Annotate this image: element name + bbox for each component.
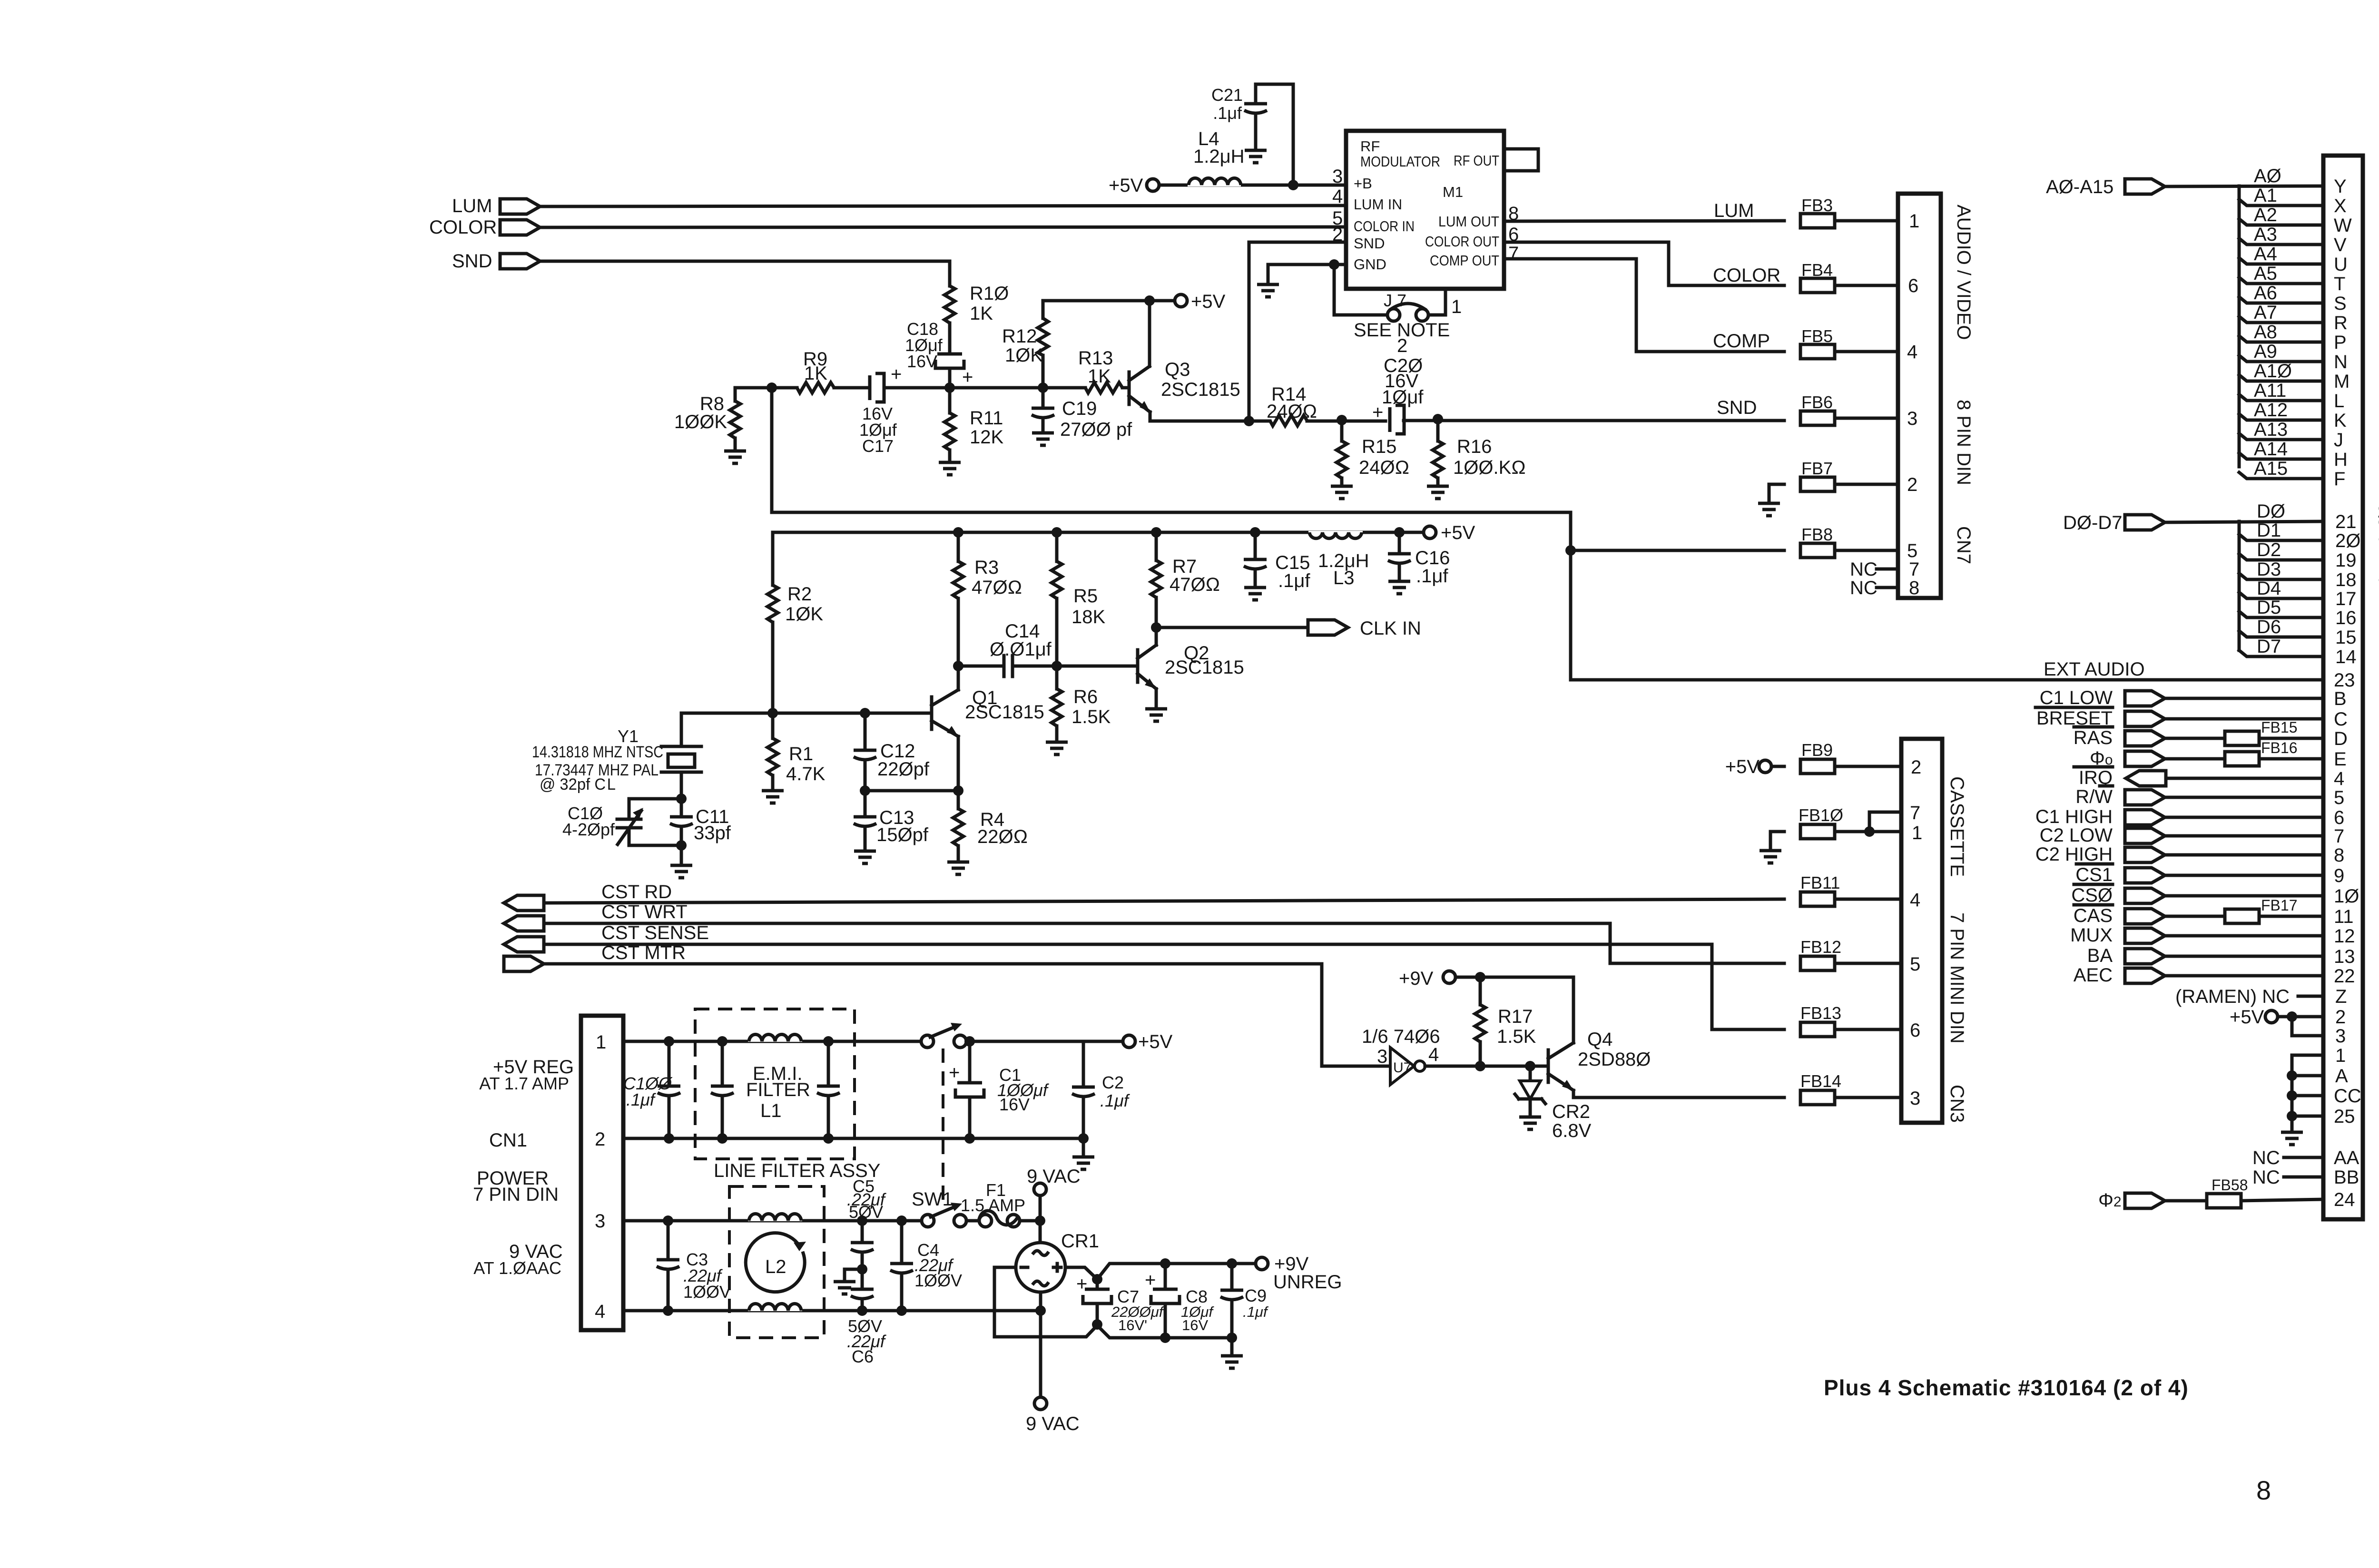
svg-text:CST RD: CST RD	[601, 882, 672, 902]
ferrite bead FB13	[1800, 1003, 1841, 1037]
ground below C13	[854, 851, 876, 863]
node CST RD flag	[504, 882, 672, 911]
svg-text:3: 3	[1377, 1046, 1387, 1067]
svg-text:Z: Z	[2335, 986, 2347, 1007]
wire D7 line	[2239, 650, 2323, 657]
svg-text:6: 6	[1910, 1020, 1920, 1041]
svg-text:7: 7	[1909, 559, 1919, 580]
ferrite bead FB7	[1800, 459, 1835, 491]
transistor Q4	[1548, 1029, 1651, 1090]
junction pin 25 gnd	[2287, 1111, 2297, 1121]
svg-text:R: R	[2334, 313, 2348, 333]
diode CR2 zener	[1515, 1066, 1592, 1141]
svg-text:CN7: CN7	[1953, 526, 1974, 564]
svg-text:+: +	[1076, 1274, 1087, 1294]
svg-text:C21: C21	[1211, 85, 1243, 105]
wire FB10 to CN3 pins 1 and 7	[1835, 812, 1901, 832]
svg-text:25: 25	[2334, 1106, 2355, 1127]
wire ground pins 1 A CC 25	[2292, 1055, 2323, 1132]
svg-text:R1Ø: R1Ø	[970, 283, 1009, 304]
svg-text:AEC: AEC	[2074, 965, 2113, 986]
svg-text:M: M	[2334, 371, 2350, 392]
svg-text:1: 1	[1451, 296, 1462, 317]
resistor R7	[1151, 527, 1220, 645]
svg-text:COMP: COMP	[1713, 331, 1770, 352]
svg-text:5Ø PIN FEMALE: 5Ø PIN FEMALE	[2375, 503, 2379, 659]
ground below C19	[1032, 433, 1054, 445]
svg-text:4-2Øpf: 4-2Øpf	[562, 820, 615, 839]
wire FB5 to CN7 pin 4	[1835, 350, 1898, 353]
svg-text:MODULATOR: MODULATOR	[1360, 153, 1440, 170]
svg-text:FB8: FB8	[1801, 525, 1833, 544]
resistor R5	[1052, 527, 1105, 666]
capacitor C6	[847, 1269, 887, 1366]
svg-text:E: E	[2334, 749, 2347, 770]
svg-text:23: 23	[2334, 670, 2355, 691]
svg-text:7 PIN MINI DIN: 7 PIN MINI DIN	[1946, 912, 1967, 1044]
svg-text:AA: AA	[2334, 1147, 2359, 1168]
wire BRESET to pin C	[2166, 717, 2323, 721]
junction base line to feedback	[767, 382, 777, 393]
ground below R15	[1331, 486, 1353, 499]
node PHI2 flag	[2098, 1190, 2165, 1211]
wire C1 HIGH to pin 6	[2166, 816, 2323, 819]
node CAS flag	[2074, 905, 2165, 926]
node (RAMEN) NC	[2175, 986, 2323, 1007]
svg-text:FB4: FB4	[1801, 260, 1833, 280]
svg-text:R17: R17	[1498, 1006, 1533, 1027]
ferrite bead FB15	[2225, 719, 2297, 745]
capacitor C20	[1390, 405, 1404, 434]
svg-text:D3: D3	[2257, 559, 2281, 580]
svg-text:5: 5	[1910, 954, 1920, 975]
svg-text:7: 7	[1508, 243, 1519, 264]
wire CST SENSE to FB13	[544, 944, 1784, 1029]
wire MUX to pin 12	[2166, 934, 2323, 938]
node SND input flag	[452, 251, 540, 272]
node BA flag	[2087, 945, 2165, 966]
CN1 label +5V REG	[479, 1057, 574, 1093]
svg-text:1.2μH: 1.2μH	[1193, 146, 1245, 167]
svg-text:A11: A11	[2254, 380, 2286, 401]
capacitor C9	[1220, 1258, 1269, 1356]
RF OUT stub	[1504, 149, 1538, 171]
svg-text:16V': 16V'	[1118, 1317, 1147, 1333]
wire RAS to pin D	[2166, 737, 2225, 740]
resistor R6	[1052, 666, 1111, 742]
svg-text:CC: CC	[2334, 1086, 2361, 1107]
node AEC flag	[2074, 965, 2165, 986]
svg-text:A5: A5	[2254, 263, 2277, 284]
node C2 LOW flag	[2040, 825, 2165, 846]
ferrite bead FB5	[1800, 326, 1835, 359]
svg-text:EDGE CONNECTOR: EDGE CONNECTOR	[2376, 704, 2379, 912]
svg-text:L2: L2	[765, 1256, 786, 1277]
svg-text:+5V: +5V	[1109, 175, 1143, 196]
svg-text:22ØΩ: 22ØΩ	[977, 826, 1028, 847]
svg-text:C9: C9	[1245, 1286, 1267, 1305]
svg-text:.1μf: .1μf	[1243, 1303, 1269, 1320]
svg-text:NC: NC	[1850, 559, 1878, 580]
wire A14 line	[2239, 453, 2323, 459]
wire A3 line	[2239, 238, 2323, 245]
svg-text:R3: R3	[974, 557, 999, 578]
wire CR1 minus to ground bus	[994, 1267, 1232, 1338]
svg-text:NC: NC	[2252, 1147, 2280, 1168]
svg-text:M1: M1	[1443, 184, 1463, 200]
svg-text:K: K	[2334, 410, 2347, 431]
junction R16 top	[1433, 414, 1443, 424]
svg-text:.1μf: .1μf	[626, 1090, 657, 1109]
svg-text:+5V: +5V	[2230, 1007, 2264, 1028]
transistor Q1	[932, 687, 1044, 736]
svg-text:9 VAC: 9 VAC	[1026, 1413, 1080, 1434]
svg-text:S: S	[2334, 293, 2347, 314]
svg-text:A14: A14	[2254, 439, 2288, 460]
wire Q4 emitter to FB14	[1573, 1090, 1784, 1098]
wire COMP OUT to FB5	[1504, 259, 1784, 352]
svg-text:47ØΩ: 47ØΩ	[972, 577, 1022, 598]
svg-text:3: 3	[2335, 1026, 2346, 1047]
svg-text:1ØØK: 1ØØK	[674, 412, 727, 432]
node C1 HIGH flag	[2035, 806, 2165, 827]
wire Q1 collector up	[957, 666, 960, 690]
svg-text:+5V: +5V	[1191, 291, 1226, 312]
svg-text:.1μf: .1μf	[1100, 1091, 1131, 1110]
svg-text:FB6: FB6	[1801, 392, 1833, 412]
node C2 HIGH flag	[2035, 844, 2165, 865]
jumper J7	[1384, 291, 1428, 321]
resistor R11	[944, 388, 1003, 462]
svg-text:CAS: CAS	[2074, 905, 2113, 926]
wire +5V to pin 3	[2292, 1017, 2323, 1036]
wire C1 LOW to pin B	[2166, 697, 2323, 700]
wire C11 to ground	[680, 845, 683, 865]
node +5V terminal at Q3	[1150, 291, 1226, 312]
svg-text:COLOR: COLOR	[1713, 265, 1780, 286]
wire A0 line	[2165, 186, 2323, 186]
svg-text:A2: A2	[2254, 205, 2277, 225]
wire D2 line	[2239, 554, 2323, 560]
svg-text:1Øμf: 1Øμf	[1382, 387, 1424, 408]
svg-text:A12: A12	[2254, 400, 2288, 421]
svg-text:8: 8	[1909, 578, 1919, 598]
wire D bus spine	[2238, 521, 2241, 650]
svg-text:FB17: FB17	[2261, 897, 2297, 914]
CN1 label 9 VAC	[473, 1241, 562, 1278]
ground below R1	[762, 791, 784, 803]
svg-text:SND: SND	[1717, 397, 1757, 418]
svg-text:A: A	[2335, 1066, 2348, 1087]
svg-text:(RAMEN) NC: (RAMEN) NC	[2175, 986, 2290, 1007]
junction fuse / 9VAC	[1035, 1215, 1045, 1226]
capacitor C4	[890, 1215, 962, 1316]
svg-text:22: 22	[2334, 966, 2355, 987]
ground below Q2	[1145, 709, 1167, 721]
capacitor C1	[949, 1036, 1050, 1144]
node +5V terminal oscillator rail	[1424, 522, 1475, 543]
wire FB3 to CN7 pin 1	[1835, 219, 1898, 223]
capacitor C3	[657, 1215, 731, 1316]
node +9V terminal at R17	[1399, 968, 1480, 989]
ground at modulator	[1257, 284, 1279, 297]
resistor R2	[767, 584, 823, 713]
ground below C16	[1388, 581, 1410, 594]
svg-text:DØ-D7: DØ-D7	[2063, 512, 2122, 533]
wire CN1 pin 1 line	[623, 1040, 1123, 1043]
svg-text:14.31818 MHZ NTSC: 14.31818 MHZ NTSC	[532, 743, 663, 761]
wire CR1 plus to +9V rail	[1065, 1264, 1256, 1279]
svg-text:2: 2	[2335, 1007, 2346, 1028]
wire Q4 collector stub	[1572, 1032, 1575, 1043]
svg-text:RF OUT: RF OUT	[1454, 152, 1499, 169]
svg-text:27ØØ pf: 27ØØ pf	[1060, 419, 1132, 440]
svg-text:D2: D2	[2257, 539, 2281, 560]
junction C10/C11 top	[676, 794, 687, 804]
wire COLOR OUT to FB4	[1504, 242, 1784, 285]
svg-text:BB: BB	[2334, 1167, 2359, 1188]
rectifier CR1 bridge	[1016, 1231, 1099, 1292]
svg-text:J: J	[2334, 430, 2343, 451]
wire FB13 to CN3 pin 6	[1835, 1028, 1901, 1031]
ferrite bead FB11	[1800, 873, 1840, 906]
svg-text:3: 3	[1910, 1088, 1920, 1109]
capacitor C2	[1072, 1041, 1131, 1157]
svg-text:RAS: RAS	[2074, 727, 2113, 748]
connector CN4 edge box	[2323, 156, 2363, 1219]
wire SND audio line to FB6	[1150, 421, 1784, 421]
svg-text:FB13: FB13	[1800, 1003, 1841, 1023]
svg-text:L3: L3	[1333, 568, 1355, 588]
svg-text:5ØV: 5ØV	[849, 1202, 883, 1222]
svg-text:FB11: FB11	[1800, 873, 1840, 892]
svg-text:1: 1	[596, 1032, 606, 1053]
svg-text:CS1: CS1	[2075, 864, 2113, 885]
svg-text:MUX: MUX	[2070, 925, 2113, 946]
svg-text:1.5K: 1.5K	[1072, 706, 1111, 727]
svg-text:D7: D7	[2257, 636, 2281, 657]
switch SW1 upper	[921, 1023, 966, 1048]
junction C5/C6 mid	[857, 1264, 867, 1274]
wire FB58 to pin 24	[2241, 1199, 2323, 1201]
node +5V terminal power	[1123, 1031, 1173, 1052]
capacitor C17	[870, 373, 884, 402]
wire A2 line	[2239, 219, 2323, 225]
switch SW1 lower	[912, 1189, 966, 1227]
inductor L2 bottom	[748, 1295, 802, 1311]
svg-text:C17: C17	[862, 436, 894, 456]
resistor R3	[953, 527, 1022, 666]
ground at C5/C6	[834, 1282, 855, 1294]
junction R17 / output	[1475, 1061, 1485, 1071]
CN1 label POWER 7 PIN DIN	[473, 1168, 559, 1205]
svg-text:1K: 1K	[804, 363, 827, 384]
svg-text:1.5 AMP: 1.5 AMP	[961, 1196, 1025, 1215]
node IRQ flag	[2074, 767, 2166, 788]
svg-text:U: U	[2334, 254, 2348, 275]
svg-text:A13: A13	[2254, 419, 2288, 440]
node CST WRT flag	[504, 902, 688, 931]
svg-text:1Ø: 1Ø	[2334, 886, 2359, 907]
junction C14 / R5 / R6	[1052, 661, 1062, 671]
capacitor C10 variable	[562, 799, 681, 845]
resistor R1	[767, 713, 826, 791]
ground below C21	[1245, 150, 1267, 163]
wire Q3 collector to +5V	[1148, 301, 1151, 366]
svg-text:FB1Ø: FB1Ø	[1799, 805, 1843, 825]
svg-text:9: 9	[2334, 865, 2344, 886]
ferrite bead FB3	[1800, 196, 1835, 228]
svg-text:C19: C19	[1062, 398, 1097, 419]
node CST MTR flag	[504, 942, 686, 971]
svg-text:19: 19	[2335, 550, 2357, 571]
note text	[1354, 320, 1450, 356]
ground below C2	[1072, 1157, 1094, 1169]
svg-text:COLOR OUT: COLOR OUT	[1425, 233, 1499, 250]
capacitor C13	[854, 791, 929, 851]
svg-text:EXT AUDIO: EXT AUDIO	[2044, 659, 2145, 680]
svg-text:Q4: Q4	[1587, 1029, 1612, 1050]
svg-text:C2 LOW: C2 LOW	[2040, 825, 2113, 846]
inductor L2 top	[748, 1205, 802, 1221]
wire CAS to pin 11	[2166, 915, 2225, 918]
ground at FB7	[1758, 503, 1780, 516]
node NC pin BB	[2252, 1167, 2323, 1188]
svg-text:4: 4	[1428, 1044, 1439, 1065]
capacitor C15	[1244, 527, 1310, 591]
svg-text:3: 3	[1907, 408, 1917, 429]
svg-text:CST SENSE: CST SENSE	[601, 922, 709, 943]
wire Y1 to C10/C11 node	[680, 772, 683, 799]
svg-text:6: 6	[2334, 807, 2344, 828]
resistor R8	[674, 388, 740, 451]
wire D0 line	[2165, 521, 2323, 522]
wire CSØ to pin 1Ø	[2166, 894, 2323, 898]
svg-text:12K: 12K	[970, 427, 1003, 448]
svg-text:1K: 1K	[1088, 366, 1111, 387]
capacitor C7	[1076, 1274, 1165, 1333]
svg-text:47ØΩ: 47ØΩ	[1170, 574, 1220, 595]
svg-text:RF: RF	[1360, 138, 1380, 155]
junction collector node	[1144, 295, 1155, 306]
junction C10/C11 bottom	[676, 840, 687, 851]
capacitor C11	[670, 799, 731, 845]
svg-text:AØ-A15: AØ-A15	[2046, 176, 2114, 197]
wire A4 line	[2239, 258, 2323, 264]
svg-text:AØ: AØ	[2254, 166, 2281, 186]
capacitor C16	[1388, 527, 1450, 587]
resistor R17	[1475, 977, 1536, 1066]
svg-text:A7: A7	[2254, 302, 2277, 323]
ferrite bead FB4	[1800, 260, 1835, 293]
node CSØ flag	[2071, 884, 2165, 906]
svg-text:2: 2	[1397, 335, 1407, 356]
svg-text:CN3: CN3	[1946, 1085, 1967, 1123]
wire BA to pin 13	[2166, 955, 2323, 958]
svg-text:4.7K: 4.7K	[786, 764, 826, 784]
wire A12 line	[2239, 414, 2323, 420]
svg-text:R5: R5	[1073, 586, 1098, 607]
svg-text:21: 21	[2335, 511, 2357, 532]
node COLOR input flag	[429, 217, 540, 238]
resistor R15	[1337, 420, 1409, 486]
resistor R13	[1078, 348, 1122, 393]
junction Q1 collector / C14	[953, 661, 963, 671]
svg-text:CLK IN: CLK IN	[1360, 618, 1421, 639]
svg-text:1ØK: 1ØK	[1005, 345, 1043, 366]
wire A11 line	[2239, 394, 2323, 401]
capacitor EMI right	[817, 1036, 840, 1144]
junction pin CC gnd	[2287, 1090, 2297, 1101]
capacitor C14	[958, 621, 1057, 676]
svg-text:CST MTR: CST MTR	[601, 942, 686, 963]
crystal Y1	[532, 726, 701, 794]
svg-text:R2: R2	[787, 584, 812, 605]
svg-text:AT 1.ØAAC: AT 1.ØAAC	[473, 1258, 561, 1278]
svg-text:LUM OUT: LUM OUT	[1438, 213, 1499, 230]
wire A8 line	[2239, 336, 2323, 342]
node NC pin 7	[1850, 559, 1898, 580]
wire FB8 to CN7 pin 5	[1835, 549, 1898, 552]
wire A bus spine	[2238, 186, 2241, 467]
svg-text:A8: A8	[2254, 322, 2277, 343]
svg-text:7 PIN DIN: 7 PIN DIN	[473, 1184, 559, 1205]
wire A6 line	[2239, 297, 2323, 303]
wire +9V to Q4 collector	[1480, 977, 1573, 1032]
wire FB16 to box	[2259, 757, 2323, 761]
wire A7 line	[2239, 316, 2323, 323]
line filter dashed box L2	[729, 1186, 824, 1338]
ferrite bead FB12	[1800, 937, 1841, 970]
svg-text:B: B	[2334, 688, 2347, 709]
svg-text:A9: A9	[2254, 341, 2277, 362]
wire D1 line	[2239, 534, 2323, 540]
capacitor C21	[1211, 84, 1293, 185]
svg-text:Ø.Ø1μf: Ø.Ø1μf	[990, 639, 1052, 660]
svg-text:UNREG: UNREG	[1273, 1272, 1342, 1293]
svg-text:6.8V: 6.8V	[1552, 1120, 1592, 1141]
node +5V edge terminal	[2230, 1007, 2323, 1028]
svg-text:+: +	[891, 364, 902, 385]
svg-text:CN1: CN1	[489, 1130, 527, 1151]
svg-text:1ØØ.KΩ: 1ØØ.KΩ	[1453, 457, 1526, 478]
wire D3 line	[2239, 573, 2323, 579]
junction FB8 branch	[1565, 545, 1576, 556]
svg-text:24ØΩ: 24ØΩ	[1359, 457, 1409, 478]
inductor L1	[748, 1026, 802, 1042]
wire A1Ø line	[2239, 375, 2323, 381]
wire mid node to ground	[845, 1269, 862, 1282]
wire J7 right leg to modulator pin 1	[1428, 289, 1445, 315]
svg-text:FB3: FB3	[1801, 196, 1833, 215]
svg-text:T: T	[2334, 274, 2345, 294]
svg-text:15: 15	[2335, 627, 2357, 648]
svg-text:8: 8	[2256, 1475, 2271, 1505]
resistor R12	[1002, 301, 1048, 388]
wire EXT AUDIO vertical	[1571, 512, 2323, 680]
ground below R6	[1046, 742, 1068, 755]
bus A0-A15 flag	[2046, 176, 2165, 197]
svg-text:FB7: FB7	[1801, 459, 1833, 478]
svg-text:R1: R1	[789, 744, 813, 764]
svg-text:@ 32pf C L: @ 32pf C L	[540, 775, 616, 794]
svg-text:N: N	[2334, 352, 2348, 372]
svg-text:COMP OUT: COMP OUT	[1430, 252, 1499, 269]
svg-text:CR1: CR1	[1061, 1231, 1099, 1252]
svg-text:A4: A4	[2254, 244, 2277, 265]
svg-text:3: 3	[1332, 166, 1343, 187]
svg-text:AT 1.7 AMP: AT 1.7 AMP	[479, 1074, 569, 1093]
